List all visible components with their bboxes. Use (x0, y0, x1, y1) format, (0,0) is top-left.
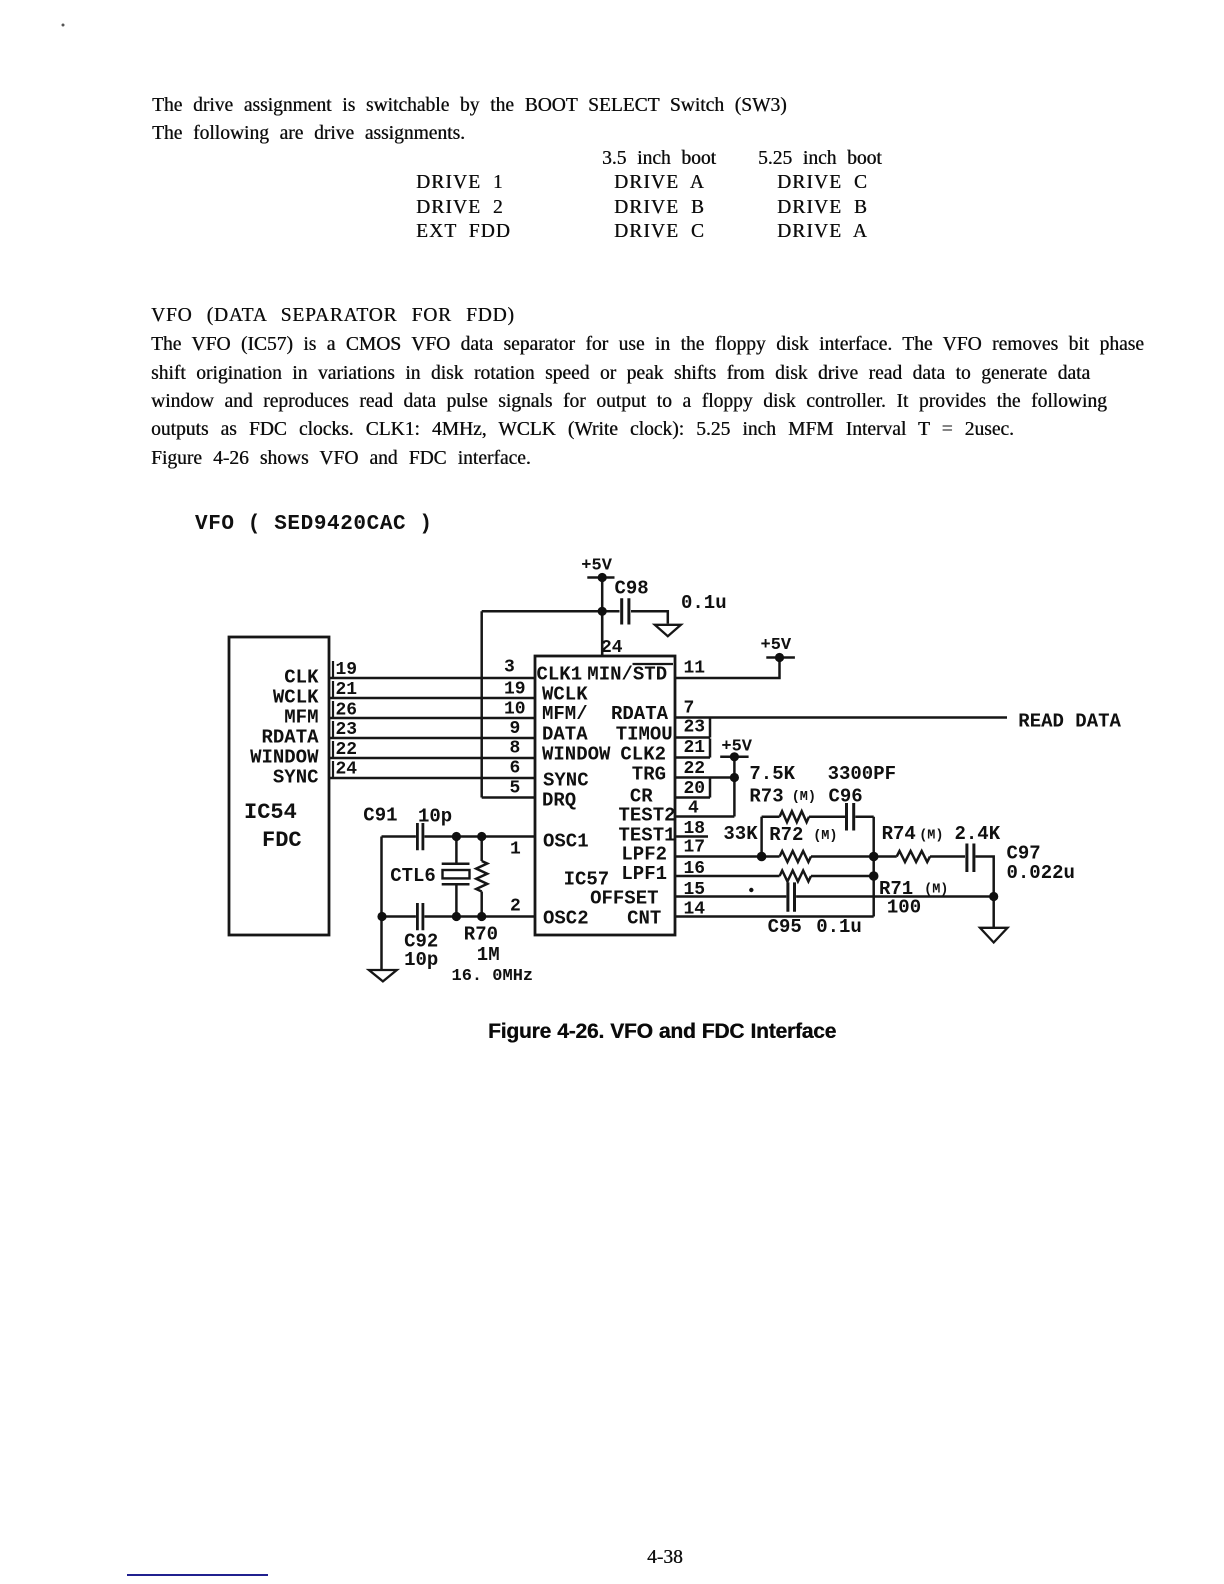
svg-text:18: 18 (684, 819, 706, 839)
svg-text:100: 100 (887, 897, 921, 919)
svg-text:3300PF: 3300PF (828, 763, 896, 785)
IC57 internal labels left column (537, 663, 612, 929)
junction node OSC1 crystal (452, 832, 461, 841)
svg-text:3: 3 (504, 658, 515, 678)
table header (602, 149, 716, 169)
svg-text:IC57: IC57 (564, 868, 610, 890)
wire pin15 OFFSET left (675, 895, 786, 898)
wire R73 to C96 (809, 815, 845, 818)
body line 2 (151, 364, 1090, 384)
svg-text:24: 24 (601, 638, 623, 658)
svg-text:(M): (M) (792, 790, 816, 805)
feedback box top with resistor R73 (762, 815, 780, 818)
+5V symbol bar TRG (720, 756, 748, 759)
wire pin11 to +5V (675, 658, 780, 679)
wire MFM pin26 to MFM/ pin10 (329, 717, 535, 720)
table row 1 (416, 173, 504, 193)
svg-text:23: 23 (336, 720, 358, 740)
table row 2 (416, 198, 504, 218)
junction node pin11 +5V (775, 653, 784, 662)
svg-text:6: 6 (510, 759, 521, 779)
wire pin23 stub (675, 719, 710, 738)
wire box right vertical (872, 817, 875, 917)
figure caption (488, 1022, 836, 1042)
svg-text:CLK1: CLK1 (537, 663, 583, 685)
svg-text:22: 22 (684, 759, 706, 779)
pin tick 24 (332, 761, 334, 778)
junction node LPF2 left (757, 852, 767, 862)
wire +5V top to C98 node (601, 578, 604, 657)
resistor R74 (897, 851, 930, 862)
wire pin22 TRG to +5V node (675, 776, 734, 779)
svg-text:C91: C91 (363, 805, 397, 827)
svg-text:WCLK: WCLK (273, 687, 319, 709)
body line 5 (151, 449, 531, 469)
wire pin14 CNT (675, 915, 874, 918)
svg-text:DATA: DATA (542, 723, 588, 745)
svg-text:C95: C95 (768, 916, 802, 938)
+5V symbol bar pin11 (766, 656, 795, 659)
svg-text:OSC2: OSC2 (543, 907, 589, 929)
wire LPF2 mid (811, 855, 897, 858)
IC54 FDC box (229, 637, 329, 935)
pin tick 26 (332, 701, 334, 718)
svg-text:9: 9 (510, 719, 521, 739)
svg-text:SYNC: SYNC (543, 769, 589, 791)
wire C97 down (976, 857, 994, 897)
junction node C98 top (598, 573, 607, 582)
wire RDATA pin23 to DATA pin9 (329, 737, 535, 740)
IC57 VFO box (535, 656, 675, 935)
svg-text:CTL6: CTL6 (390, 865, 436, 887)
svg-text:DRQ: DRQ (542, 789, 576, 811)
body line 1 (151, 335, 1144, 355)
wire pin7 READ DATA (675, 716, 1007, 719)
svg-text:OFFSET: OFFSET (590, 887, 658, 909)
svg-text:19: 19 (504, 680, 526, 700)
svg-text:33K: 33K (723, 823, 758, 845)
svg-text:5: 5 (510, 779, 521, 799)
resistor R72 (780, 851, 811, 862)
capacitor C96 (847, 803, 854, 831)
pin tick 23 (332, 721, 334, 738)
svg-text:RDATA: RDATA (611, 703, 669, 725)
svg-text:19: 19 (336, 660, 358, 680)
wire C96 right (855, 815, 873, 818)
pin tick 21 (332, 681, 334, 698)
svg-text:R70: R70 (464, 924, 498, 946)
svg-text:RDATA: RDATA (261, 727, 319, 749)
svg-text:VFO ( SED9420CAC ): VFO ( SED9420CAC ) (195, 513, 433, 536)
svg-text:TIMOU: TIMOU (616, 723, 673, 745)
svg-text:16: 16 (684, 859, 706, 879)
svg-text:0.1u: 0.1u (681, 592, 727, 614)
wire pin21 stub (675, 739, 710, 758)
wire OSC2 left segment (382, 915, 416, 918)
crystal CTL6 top plate (442, 862, 470, 865)
junction node LPF2 right (869, 852, 879, 862)
wire LPF1 to junction (811, 875, 874, 878)
crystal CTL6 bottom plate (442, 883, 470, 886)
svg-text:R74: R74 (882, 823, 916, 845)
wire OSC2 right segment (424, 915, 535, 918)
+5V symbol bar top (587, 576, 614, 579)
wire pin17 LPF2 left (675, 855, 780, 858)
capacitor C92 (417, 903, 423, 930)
wire OSC1 right segment (424, 835, 535, 838)
IC54 pin numbers (336, 660, 358, 779)
junction node LPF1 (869, 871, 879, 881)
wire CLK pin19 to CLK1 pin3 (329, 677, 535, 680)
IC57 internal labels right column (587, 663, 675, 929)
svg-text:MFM: MFM (284, 707, 318, 729)
svg-text:16. 0MHz: 16. 0MHz (452, 967, 534, 986)
svg-text:(M): (M) (924, 882, 948, 897)
wire pin4 TEST2 (675, 815, 734, 818)
ground bottom left (369, 970, 397, 981)
wire pin16 LPF1 left (675, 875, 780, 878)
wire WCLK pin21 to WCLK pin19 (329, 697, 535, 700)
IC54 pin labels (250, 667, 319, 789)
svg-text:+5V: +5V (581, 557, 612, 576)
junction node OSC1 R70 (477, 832, 486, 841)
crystal CTL6 stem top (455, 837, 458, 864)
wire C98 node left (482, 610, 620, 613)
wire pin20 stub (675, 779, 710, 798)
wire left vertical to ground (380, 837, 383, 971)
svg-text:17: 17 (684, 838, 706, 858)
paragraph line 1 (152, 96, 787, 116)
svg-text:CLK: CLK (284, 667, 319, 689)
wire +5V rail vertical to DRQ (480, 611, 483, 797)
wire pin24 top (601, 611, 604, 656)
wire pin18 stub (675, 835, 708, 838)
resistor R70 (476, 861, 487, 892)
svg-text:MFM/: MFM/ (542, 703, 588, 725)
svg-text:0.1u: 0.1u (816, 916, 862, 938)
wire C95 to ground node (796, 895, 994, 898)
svg-text:FDC: FDC (262, 828, 302, 853)
svg-text:R72: R72 (769, 824, 803, 846)
junction node TRG (730, 773, 739, 782)
junction node OSC2 corner (377, 912, 386, 921)
svg-text:TRG: TRG (632, 763, 666, 785)
wire SYNC pin24 to SYNC pin6 (329, 777, 535, 780)
svg-text:IC54: IC54 (244, 800, 297, 825)
wire DRQ pin5 stub (482, 796, 535, 799)
crystal CTL6 body (443, 870, 470, 878)
body line 4 (151, 420, 1014, 440)
svg-text:2.4K: 2.4K (955, 823, 1001, 845)
resistor R71 (780, 871, 811, 882)
svg-text:+5V: +5V (721, 737, 752, 756)
wire ground node down (992, 897, 995, 928)
junction node C98 (598, 607, 607, 616)
resistor R73 (780, 811, 809, 822)
svg-text:14: 14 (684, 899, 706, 919)
ground below C98 (655, 625, 681, 636)
svg-text:11: 11 (684, 659, 706, 679)
svg-text:+5V: +5V (761, 636, 792, 655)
svg-text:C96: C96 (829, 785, 863, 807)
junction node ground C97 (989, 892, 998, 901)
capacitor C97 (967, 844, 974, 873)
svg-text:7.5K: 7.5K (749, 763, 795, 785)
wire R74 to C97 (930, 855, 965, 858)
svg-text:2: 2 (510, 896, 521, 916)
svg-text:22: 22 (336, 740, 358, 760)
paragraph line 2 (152, 124, 465, 144)
wire OSC1 left segment (382, 835, 416, 838)
svg-text:WINDOW: WINDOW (250, 747, 319, 769)
svg-text:LPF1: LPF1 (621, 863, 667, 885)
svg-text:21: 21 (684, 738, 706, 758)
svg-text:WINDOW: WINDOW (542, 743, 611, 765)
table row 3 (416, 222, 511, 242)
ground below C97 (980, 928, 1008, 943)
body line 3 (151, 392, 1107, 412)
wire box left vertical (760, 817, 763, 857)
svg-text:15: 15 (684, 880, 706, 900)
svg-text:0.022u: 0.022u (1007, 862, 1075, 884)
svg-text:10: 10 (504, 699, 526, 719)
svg-text:23: 23 (684, 718, 706, 738)
svg-text:10p: 10p (418, 805, 452, 827)
junction node TRG +5V (730, 752, 739, 761)
svg-text:1M: 1M (477, 944, 500, 966)
blue underline mark bottom left (127, 1574, 268, 1576)
crystal CTL6 stem bottom (455, 884, 458, 916)
svg-text:24: 24 (336, 760, 358, 780)
junction node OSC2 R70 (477, 912, 486, 921)
capacitor C95 (788, 882, 795, 911)
resistor R70 lead bottom (480, 892, 483, 917)
wire C98 to ground (631, 611, 668, 623)
ink speck near pin15 (749, 888, 753, 892)
junction node OSC2 crystal (452, 912, 461, 921)
svg-text:(M): (M) (813, 829, 837, 844)
svg-text:READ DATA: READ DATA (1018, 711, 1121, 733)
ink speck top left (62, 24, 65, 27)
page number (647, 1548, 683, 1568)
wire +5V node vertical to TEST2 (733, 757, 736, 817)
svg-text:OSC1: OSC1 (543, 830, 589, 852)
pin tick 22 (332, 741, 334, 758)
svg-text:TEST2: TEST2 (619, 804, 676, 826)
IC57 right pin numbers (684, 659, 706, 920)
svg-text:21: 21 (336, 680, 358, 700)
capacitor C98 (622, 598, 629, 624)
svg-text:SYNC: SYNC (273, 767, 319, 789)
svg-text:4: 4 (688, 798, 699, 818)
svg-text:R73: R73 (749, 785, 783, 807)
svg-text:C98: C98 (615, 578, 649, 600)
svg-text:7: 7 (684, 698, 695, 718)
capacitor C91 (417, 823, 423, 850)
svg-text:26: 26 (336, 700, 358, 720)
svg-text:8: 8 (510, 738, 521, 758)
resistor R70 lead top (480, 837, 483, 862)
pin tick 19 (332, 661, 334, 678)
wire WINDOW pin22 to WINDOW pin8 (329, 757, 535, 760)
IC57 left pin numbers (504, 658, 526, 917)
overline MIN/STD (633, 663, 674, 665)
svg-text:20: 20 (684, 779, 706, 799)
svg-text:MIN/STD: MIN/STD (587, 663, 667, 685)
svg-text:CLK2: CLK2 (620, 743, 666, 765)
svg-text:CNT: CNT (627, 907, 661, 929)
section heading (151, 306, 515, 326)
svg-text:10p: 10p (404, 949, 438, 971)
svg-text:1: 1 (510, 839, 521, 859)
svg-text:(M): (M) (919, 828, 943, 843)
